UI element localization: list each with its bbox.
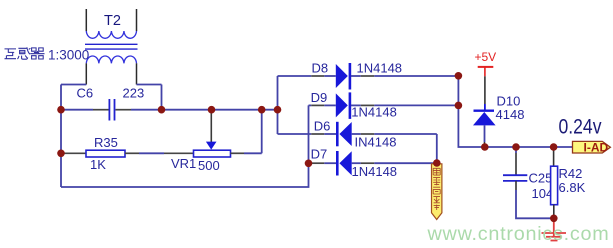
svg-text:R35: R35 [94, 135, 118, 150]
wire: main bus [61, 109, 93, 111]
svg-text:D7: D7 [311, 147, 328, 162]
diode D10 [474, 109, 495, 111]
capacitor C25 [515, 147, 517, 153]
svg-text:223: 223 [123, 86, 145, 101]
wire: transformer right step [137, 84, 162, 86]
svg-text:0.24v: 0.24v [559, 116, 602, 139]
label 互感器 1:3000 (Chinese drawn as strokes) [5, 47, 45, 59]
wire VR1 right [231, 152, 245, 154]
I-AD port [573, 141, 611, 153]
svg-text:C25: C25 [529, 171, 553, 186]
capacitor C6 [108, 99, 110, 121]
svg-text:T2: T2 [104, 13, 121, 29]
svg-text:D8: D8 [312, 61, 329, 76]
diode D8 [278, 75, 312, 77]
resistor R42 [553, 147, 555, 166]
wire R35-VR1 [125, 152, 139, 154]
wire: riser to D8/D6 [277, 76, 279, 134]
wire: left vertical [60, 110, 62, 187]
svg-text:1N4148: 1N4148 [351, 105, 397, 120]
svg-text:1N4148: 1N4148 [357, 60, 403, 75]
wire: transformer left step [61, 84, 86, 86]
diode D9 [309, 104, 312, 106]
svg-text:D6: D6 [314, 118, 331, 133]
wire: bottom loop [61, 105, 309, 187]
potentiometer VR1 [194, 150, 231, 157]
svg-text:+5V: +5V [475, 50, 497, 64]
resistor R35 [61, 152, 86, 154]
svg-text:I-AD: I-AD [584, 141, 609, 155]
svg-text:6.8K: 6.8K [559, 180, 586, 195]
svg-text:www.cntronics.com: www.cntronics.com [427, 223, 610, 245]
wire D6 to flag node [436, 134, 438, 163]
transformer T2 [85, 9, 138, 85]
svg-text:500: 500 [198, 158, 220, 173]
ground [542, 218, 567, 240]
svg-text:C6: C6 [77, 86, 94, 101]
diode D6 [278, 133, 312, 135]
wire: D8/D9 node to output [458, 76, 572, 147]
net flag (yellow vertical label) [432, 164, 442, 220]
diode D7 [309, 162, 312, 164]
svg-text:1N4148: 1N4148 [352, 164, 398, 179]
svg-text:IN4148: IN4148 [355, 135, 397, 150]
svg-text:D9: D9 [311, 90, 328, 105]
svg-text:VR1: VR1 [171, 156, 196, 171]
svg-text:4148: 4148 [496, 107, 525, 122]
svg-text:1:3000: 1:3000 [48, 48, 89, 63]
svg-text:R42: R42 [559, 166, 583, 181]
svg-text:1K: 1K [90, 157, 106, 172]
